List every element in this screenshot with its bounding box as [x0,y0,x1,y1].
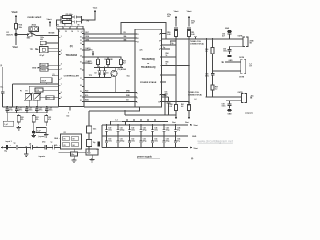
svg-text:Vbat: Vbat [13,46,18,49]
wire psu mid rail [102,135,188,137]
svg-text:17: 17 [80,78,82,80]
wire left drop [12,84,14,107]
capacitor C31 [15,145,17,149]
capacitor C44b bottom [152,136,154,141]
svg-text:8: 8 [159,49,160,51]
svg-text:TDA8433: TDA8433 [65,53,77,57]
svg-text:GND: GND [32,68,37,70]
IC2 left pin ticks [59,36,61,38]
junction L1 [206,38,208,40]
resistor R22 [107,57,109,59]
svg-text:100n: 100n [223,51,227,53]
capacitor C6 [35,88,43,92]
svg-text:100n: 100n [108,129,112,131]
svg-text:1 µF: 1 µF [4,124,7,126]
junction G [97,56,99,58]
svg-text:11: 11 [137,34,139,36]
svg-text:22n: 22n [71,154,74,156]
svg-text:12: 12 [80,43,82,45]
svg-text:100µ: 100µ [166,129,170,131]
svg-text:PD2: PD2 [85,91,88,93]
svg-text:TP2: TP2 [89,75,92,77]
power arrow Vbatt [15,17,17,24]
svg-text:100n: 100n [93,129,97,131]
IC3 left pin ticks [135,33,137,35]
capacitor C31b [30,145,32,149]
junction H [120,56,122,58]
svg-text:2: 2 [61,50,62,52]
capacitor C20 [6,107,8,109]
resistor R30 [18,114,20,116]
resistor R21 [97,57,99,59]
svg-text:TP4: TP4 [86,19,89,22]
svg-text:TDA8350Q: TDA8350Q [142,57,155,61]
svg-text:CONNECTOR (A): CONNECTOR (A) [190,43,204,46]
svg-text:R31: R31 [36,117,39,119]
junction top C42 [129,124,130,125]
svg-text:100nF: 100nF [41,81,46,83]
test point TP4 [83,19,85,21]
capacitor C33 [73,149,75,152]
svg-text:EHT: EHT [86,32,89,34]
svg-text:12: 12 [137,38,139,40]
svg-text:10µ: 10µ [171,43,174,45]
wire OUT B pin [162,95,166,116]
svg-text:C10: C10 [36,90,39,92]
capacitor C33b [52,145,54,149]
svg-text:2.2: 2.2 [215,89,217,91]
capacitor C25 [6,113,8,121]
capacitor C13 [40,78,52,83]
resistor R57b [211,85,214,90]
svg-text:2k2: 2k2 [123,63,126,65]
wire pin stub aux [52,75,59,77]
wire out column 2a [212,39,214,48]
svg-text:SCL: SCL [85,95,88,97]
svg-text:L2: L2 [195,99,197,101]
resistor R31 [33,114,35,116]
wire bus upper [84,37,135,39]
capacitor C56 [229,46,231,49]
resistor R60 [175,103,177,105]
power arrow branch1 end [175,115,177,118]
junction C [26,106,28,108]
junction bot C44 [152,136,153,137]
saw filter FL1 [86,149,98,155]
svg-text:9: 9 [61,97,62,99]
svg-text:1k: 1k [106,62,108,64]
svg-text:or: or [147,62,149,65]
IC2 right pin ticks [82,33,84,35]
svg-text:1k: 1k [166,55,168,57]
wire psu bottom rail [102,147,188,149]
svg-text:IC1: IC1 [64,132,67,134]
wire RC left [57,20,62,26]
svg-text:C21: C21 [19,108,22,110]
test point TP3 [92,51,94,54]
power arrow switch supply [49,23,51,27]
capacitor C41 top [117,125,119,130]
junction top C40 [106,124,107,125]
svg-text:3: 3 [82,31,83,33]
wire feedback top [84,33,135,35]
svg-text:6.8: 6.8 [170,106,172,108]
svg-text:1M2: 1M2 [27,38,31,40]
svg-text:C22: C22 [29,108,32,110]
node right RC [80,16,82,23]
svg-text:R2: R2 [73,139,75,141]
svg-text:MODE: MODE [49,32,56,34]
junction top C41 [117,124,118,125]
junction bot C40 [106,136,107,137]
capacitor C14 far left [2,67,4,91]
junction L2 [212,38,214,40]
svg-text:R61: R61 [181,104,184,106]
wire psu upper link [122,121,168,123]
svg-text:Vbatt: Vbatt [187,10,192,13]
svg-text:6.8: 6.8 [181,106,183,108]
wire branch 2 down [188,39,190,103]
svg-text:100n: 100n [154,141,158,143]
svg-text:1k: 1k [71,25,73,27]
junction J [104,67,106,69]
connector CN3 [242,94,244,103]
wire yoke pin2 [213,70,241,72]
capacitor C51 [187,27,191,29]
svg-text:OUTB: OUTB [239,77,245,79]
svg-text:GND: GND [228,114,233,116]
capacitor C43 top [140,125,142,130]
wire input bus [26,146,30,148]
svg-text:21: 21 [80,100,82,102]
svg-text:2200µ: 2200µ [120,141,125,143]
wire OUT B [206,96,241,98]
svg-text:GND2: GND2 [41,70,46,72]
svg-text:GND: GND [225,28,230,30]
svg-text:100n: 100n [131,129,135,131]
capacitor C40 top [106,125,108,130]
wire TP3 net [84,56,121,58]
svg-text:+: + [10,145,11,147]
svg-text:100n: 100n [131,141,135,143]
svg-text:Vp: Vp [163,47,165,49]
capacitor C61 [162,96,169,98]
analog switch S1 [29,27,39,32]
junction bot C45 [163,136,164,137]
svg-text:IC2: IC2 [67,116,70,118]
svg-text:OUTA: OUTA [239,56,245,59]
resistor R1 [61,16,62,18]
svg-text:15: 15 [80,62,82,64]
svg-text:27k 560p: 27k 560p [66,14,73,16]
svg-text:R30: R30 [21,117,24,119]
wire psu top rail [102,124,188,126]
svg-text:1k: 1k [166,64,168,66]
resistor R51 [188,29,190,30]
resistor R6 [77,26,83,29]
capacitor C54 [170,41,176,45]
svg-text:(7): (7) [140,50,143,52]
resistor R16 [15,24,18,29]
svg-text:5: 5 [137,102,138,104]
diode D3 [104,67,106,70]
svg-text:16: 16 [80,69,82,71]
svg-text:L1: L1 [116,119,118,121]
junction tick [140,119,142,122]
tap symbol top [195,37,197,39]
svg-text:GND: GND [229,60,234,62]
svg-text:GND1: GND1 [41,65,46,67]
svg-text:inputs: inputs [39,155,46,158]
wire y115 stub [124,111,126,115]
junction A [6,106,8,108]
svg-text:100n: 100n [40,37,44,39]
svg-text:TDA8351A/Q: TDA8351A/Q [141,66,156,69]
svg-text:15: 15 [65,31,67,33]
svg-text:9: 9 [81,32,82,34]
svg-text:R3: R3 [57,25,59,27]
wire R16 to D1 [15,29,17,34]
svg-text:1 µF: 1 µF [37,130,40,132]
svg-text:7: 7 [159,95,160,97]
junction I [99,67,101,69]
junction D [36,106,38,108]
capacitor C22 [26,107,28,109]
resistor R5 [70,26,76,29]
wire mid link [94,66,123,68]
junction tick [126,119,128,122]
svg-text:P2: P2 [26,91,28,93]
svg-text:6: 6 [61,78,62,80]
svg-text:OUTA: OUTA [238,35,244,38]
svg-text:4n7: 4n7 [222,34,225,37]
arrow psu top [190,124,192,126]
wire under box [89,107,140,111]
zener D1 [14,33,17,36]
wire guard pin [162,101,190,103]
junction E [46,106,48,108]
svg-text:5: 5 [78,31,79,33]
svg-text:0.68: 0.68 [167,34,170,36]
svg-text:13: 13 [137,42,139,44]
svg-text:16: 16 [71,31,73,33]
junction top C44 [152,124,153,125]
svg-text:TP1: TP1 [30,49,33,51]
wire left rail [3,106,59,108]
svg-text:Vbat: Vbat [185,121,189,124]
svg-text:100n: 100n [29,110,33,112]
capacitor C45 top [163,125,165,130]
capacitor C43b bottom [140,136,142,141]
pot P1 [25,94,31,101]
svg-text:7: 7 [61,84,62,86]
svg-text:Vbatt: Vbatt [47,18,52,21]
capacitor C44 top [152,125,154,130]
connector CN2 deflection yoke [241,59,243,74]
junction M [229,38,231,40]
junction bot C41 [117,136,118,137]
resistor R23 [120,57,122,59]
svg-text:3: 3 [137,93,138,95]
capacitor C35 [87,126,92,133]
wire Vp rail [162,44,171,46]
svg-text:Vbatt: Vbatt [12,11,18,14]
test point TP1 [35,48,37,50]
resistor R4 [64,26,70,29]
svg-text:power supply: power supply [137,157,153,159]
capacitor C45b bottom [163,136,165,141]
wire bus drop [88,111,90,126]
svg-text:68nF: 68nF [89,63,93,65]
wire branch 1 down [175,39,177,103]
svg-text:POWER STAGE: POWER STAGE [140,81,157,84]
ground arrow yoke [222,61,224,63]
wire lower link [84,77,111,79]
svg-text:X1: X1 [41,45,43,47]
wire boxes bottom link [84,106,135,108]
input arrow 1 [1,146,2,148]
connector J1 [61,134,82,149]
svg-text:R6: R6 [78,25,80,27]
svg-text:www.circuitdiagram.net: www.circuitdiagram.net [198,140,233,144]
svg-text:1k: 1k [64,25,66,27]
svg-text:Vbat: Vbat [194,147,198,150]
svg-text:D2: D2 [95,73,97,75]
junction tick [133,119,135,122]
wire pin stub3 [162,65,190,67]
svg-text:C20: C20 [9,108,12,110]
wire bus3 [84,101,135,103]
ground box GND1 [40,63,48,66]
svg-text:1: 1 [61,36,62,38]
svg-text:GND: GND [192,136,197,138]
wire IC2 pin feed [13,83,59,85]
resistor R50 [175,29,177,30]
resistor R56 [211,48,214,54]
svg-text:C55: C55 [166,139,169,141]
svg-text:C56: C56 [177,139,180,141]
capacitor C21 [16,107,18,109]
svg-text:2200µ: 2200µ [120,129,125,131]
wire input lower bus [59,151,86,153]
junction tick [147,119,149,122]
switch wiper wire [30,32,36,36]
wire pin 8 stub [162,48,171,50]
svg-text:0.68: 0.68 [191,34,194,36]
junction F [26,147,28,149]
capacitor C24 [46,107,48,109]
svg-text:8: 8 [61,92,62,94]
svg-text:4: 4 [137,96,138,99]
diode D2 [99,67,101,70]
svg-text:3: 3 [61,53,62,55]
svg-text:D3: D3 [106,73,108,75]
svg-text:Vbatt: Vbatt [93,7,98,10]
svg-text:18: 18 [80,85,82,87]
svg-text:C23: C23 [39,108,42,110]
capacitor C58 [212,71,214,73]
svg-text:5: 5 [61,68,62,70]
svg-text:input 1: input 1 [6,140,12,143]
svg-text:R23: R23 [123,61,126,63]
svg-text:C50: C50 [108,139,111,141]
capacitor C32 [44,145,46,149]
IC2 bottom pin [69,107,71,111]
svg-text:100µ: 100µ [166,141,170,143]
capacitor C1 [74,16,76,19]
capacitor C36 [87,140,92,147]
svg-text:CONNECTOR (B): CONNECTOR (B) [188,94,202,96]
crystal X1 [40,47,49,53]
capacitor C34 electrolytic [97,142,100,147]
wire RC right [81,16,95,20]
node left RC [60,16,62,23]
ground blob C56 [227,55,232,57]
ground G2 [33,125,35,131]
power arrow +Vbatt 1 [175,18,177,27]
svg-text:C53: C53 [143,139,146,141]
capacitor C40b bottom [106,136,108,141]
capacitor C2 [74,20,76,23]
capacitor C26 [36,128,46,133]
ground G3 [45,125,47,127]
resistor R3 [57,26,63,29]
resistor R17 [28,34,33,37]
wire out column 1 [205,39,207,97]
svg-text:6: 6 [159,41,160,43]
wire psu left edge [101,125,103,148]
capacitor C50 [174,27,178,29]
svg-text:(spare): (spare) [39,136,46,138]
svg-text:Vbat: Vbat [194,124,198,127]
svg-text:Vbatt: Vbatt [174,10,179,13]
capacitor C42 top [129,125,131,130]
ground G1 [18,126,20,128]
ground G6 [91,155,93,158]
wire yoke pin1 [225,61,241,63]
IC3 right pin ticks [160,33,162,35]
wire ladder link [7,112,47,114]
svg-text:R32: R32 [48,117,51,119]
ground blob C59 [227,109,232,111]
wire D1 down [15,34,17,44]
pot P2 [34,94,40,101]
svg-text:100n: 100n [154,129,158,131]
wire bus2 [84,96,135,98]
junction tick [154,119,156,122]
svg-text:Vbat: Vbat [172,121,176,124]
svg-text:13: 13 [80,49,82,51]
svg-text:P1: P1 [20,91,22,93]
svg-text:C2 560p: C2 560p [66,19,72,21]
svg-text:R55: R55 [166,62,169,64]
svg-text:mode select: mode select [28,16,42,19]
junction top C43 [140,124,141,125]
svg-text:20: 20 [80,96,82,98]
junction J2 [120,67,122,69]
wire lower rail [125,114,176,116]
wire bus1 [84,92,135,94]
resistor R2 [61,21,62,23]
ground box GND2 [40,68,48,71]
capacitor C7 [46,96,54,100]
op-amp IC2 TDA8433 controller box [59,29,85,107]
capacitor C59 [229,101,231,104]
wire pin stub top [162,33,167,35]
svg-text:10µ: 10µ [4,151,7,153]
svg-text:1µ: 1µ [14,143,16,145]
resistor R32 [45,114,47,116]
